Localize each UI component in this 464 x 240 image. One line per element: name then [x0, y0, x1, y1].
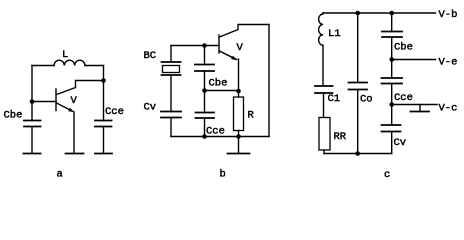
capacitor Cbe (b) — [195, 65, 214, 72]
capacitor Cce (a) — [95, 121, 112, 127]
node: Cbe/Cce junction — [202, 88, 207, 93]
wire: emitter down to node — [238, 59, 240, 91]
wire: Cv to bottom rail — [170, 118, 172, 137]
wire: V-e node to Cce — [391, 60, 393, 79]
node: V-e junction — [389, 57, 394, 62]
wire: C1 to RR — [323, 93, 325, 118]
wire: L1 to C1 — [322, 45, 324, 86]
wire: base lead — [32, 101, 56, 103]
wire: V-b lead — [392, 12, 436, 14]
node: V-c junction — [389, 102, 394, 107]
transistor V (b): collector lead — [220, 25, 270, 38]
wire: Co column top — [357, 13, 359, 83]
wire: middle branch top — [204, 46, 206, 65]
svg-text:Cce: Cce — [206, 126, 225, 138]
transistor V (b): emitter lead with arrow — [220, 51, 237, 60]
inductor L1 — [319, 13, 323, 45]
svg-text:V-c: V-c — [439, 103, 458, 115]
transistor V (a): base bar — [55, 89, 57, 111]
capacitor Cbe (c) — [382, 32, 402, 38]
node: Co top junction — [355, 11, 360, 16]
wire: left rail — [31, 66, 33, 121]
resistor R body — [234, 97, 244, 131]
wire: emitter down — [73, 112, 75, 154]
ground (Cce) — [95, 153, 112, 155]
svg-text:V-b: V-b — [439, 9, 458, 21]
inductor L — [54, 60, 85, 65]
capacitor Cv (b) — [161, 112, 181, 118]
svg-text:Cbe: Cbe — [4, 110, 23, 122]
capacitor Co — [349, 83, 368, 90]
wire: V-c node to Cv — [391, 105, 393, 126]
svg-text:V: V — [71, 95, 78, 107]
transistor V (b): base bar — [218, 35, 220, 53]
wire: node to R — [238, 91, 240, 97]
crystal BC body — [163, 66, 180, 73]
node: right column top junction — [389, 11, 394, 16]
svg-text:Cbe: Cbe — [394, 42, 413, 54]
wire: right rail — [103, 66, 105, 121]
node: middle bottom junction — [202, 134, 207, 139]
wire: R to bottom rail — [238, 131, 240, 137]
ground (Cbe) — [24, 153, 41, 155]
capacitor C1 — [315, 86, 333, 93]
wire: Cbe to ground — [31, 127, 33, 154]
svg-text:Co: Co — [360, 94, 373, 106]
node: base-Cbe junction — [30, 99, 35, 104]
wire: V-c lead — [392, 104, 437, 106]
wire: Cce to V-c node — [391, 84, 393, 105]
wire: V-e lead — [392, 59, 436, 61]
svg-text:L1: L1 — [328, 28, 341, 40]
ground (V-c line) — [419, 105, 421, 112]
wire: right column top — [391, 13, 393, 32]
svg-text:b: b — [220, 169, 226, 181]
wire: top rail right segment — [85, 65, 104, 67]
wire: crystal to Cv — [170, 75, 172, 112]
capacitor Cce (c) — [382, 78, 403, 84]
wire: left branch top — [170, 46, 172, 63]
resistor RR body — [319, 118, 330, 151]
node: top junction — [202, 43, 207, 48]
capacitor Cbe (a) — [24, 121, 41, 127]
node: emitter junction — [236, 89, 241, 94]
crystal BC plates — [162, 62, 181, 75]
node: bottom junction — [355, 151, 360, 156]
svg-text:Cce: Cce — [105, 106, 124, 118]
ground (b) — [238, 137, 240, 154]
wire: top rail of b — [171, 45, 219, 47]
wire: RR to bottom rail — [323, 150, 325, 154]
wire: right rail of b — [268, 25, 270, 137]
transistor V (a): collector lead — [57, 81, 104, 95]
svg-text:BC: BC — [144, 50, 157, 62]
wire: Cce to ground — [103, 127, 105, 154]
svg-text:C1: C1 — [328, 93, 341, 105]
node: R bottom junction — [236, 134, 241, 139]
wire: Cv to bottom rail — [391, 132, 393, 154]
wire: top rail of c — [323, 12, 392, 14]
wire: bottom rail of c — [324, 153, 392, 155]
wire: bottom rail of b — [171, 136, 269, 138]
svg-text:Cv: Cv — [144, 102, 157, 114]
svg-text:R: R — [248, 110, 255, 122]
transistor V (a): emitter lead with arrow — [57, 103, 74, 112]
svg-text:V-e: V-e — [439, 57, 458, 69]
wire: emitter link — [205, 90, 239, 92]
svg-text:L: L — [62, 49, 68, 61]
wire: node to Cce — [204, 91, 206, 113]
ground (emitter) — [66, 153, 84, 155]
wire: Cbe to node — [204, 71, 206, 91]
svg-text:V: V — [237, 42, 244, 54]
wire: Cce to bottom rail — [204, 118, 206, 137]
svg-text:Cv: Cv — [394, 137, 407, 149]
wire: top rail of a — [32, 65, 54, 67]
svg-text:Cce: Cce — [394, 92, 413, 104]
capacitor Cv (c) — [382, 125, 401, 132]
svg-text:Cbe: Cbe — [209, 78, 228, 90]
node: collector junction — [101, 78, 106, 83]
wire: Cbe to V-e node — [391, 37, 393, 60]
svg-text:c: c — [384, 169, 390, 181]
wire: Co to bottom rail — [357, 90, 359, 154]
svg-text:a: a — [57, 169, 63, 181]
capacitor Cce (b) — [196, 113, 215, 119]
svg-text:RR: RR — [334, 131, 347, 143]
